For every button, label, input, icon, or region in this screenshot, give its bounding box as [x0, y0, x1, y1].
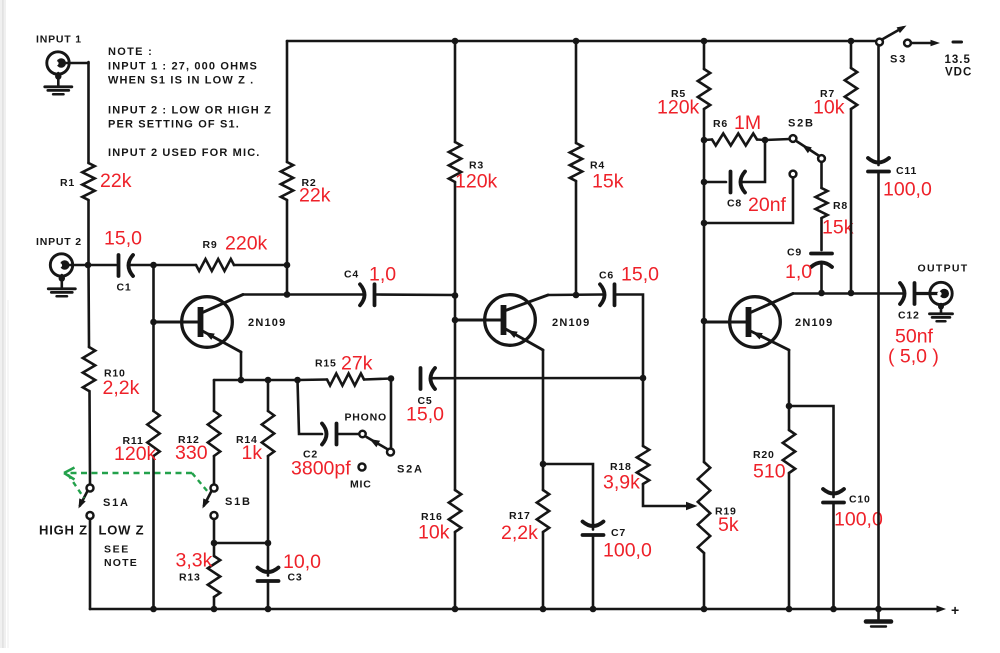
- svg-text:510: 510: [753, 461, 786, 483]
- value R19 5k: [718, 514, 739, 536]
- wire Q1 emitter down: [240, 352, 243, 380]
- capacitor C7: [583, 522, 604, 610]
- transistor Q1 2N109: [154, 295, 244, 353]
- label Q1 2N109: [248, 317, 286, 329]
- svg-text:+: +: [951, 602, 959, 618]
- label R8: [833, 200, 848, 212]
- svg-text:100,0: 100,0: [603, 540, 652, 562]
- value R2 22k: [299, 185, 331, 207]
- svg-text:S2A: S2A: [397, 464, 424, 476]
- resistor R15: [298, 374, 392, 386]
- value R5 120k: [657, 97, 700, 119]
- label R10: [104, 368, 126, 380]
- value C6 15,0: [621, 264, 659, 286]
- value R17 2,2k: [501, 522, 538, 544]
- capacitor C10: [823, 489, 844, 609]
- wire top supply bus: [287, 40, 876, 43]
- svg-text:NOTE :: NOTE :: [108, 46, 153, 58]
- value R18 3,9k: [603, 472, 640, 494]
- svg-text:120k: 120k: [455, 171, 498, 193]
- value R20 510: [753, 461, 786, 483]
- junction S2B return: [701, 220, 708, 227]
- svg-text:C8: C8: [727, 198, 742, 210]
- svg-text:15k: 15k: [822, 217, 854, 239]
- wire bottom ground bus: [90, 606, 946, 613]
- mechanical link S1 dashes: [64, 468, 208, 499]
- label R16: [421, 511, 443, 523]
- junction bus R13: [211, 606, 218, 613]
- wire S2B lower contact return: [704, 178, 793, 224]
- svg-text:R20: R20: [753, 449, 775, 461]
- svg-text:C4: C4: [344, 269, 359, 281]
- label R14: [236, 434, 258, 446]
- junction bus R16: [452, 606, 459, 613]
- svg-text:330: 330: [175, 442, 208, 464]
- label R11: [123, 435, 144, 447]
- wire emitter node to C10: [789, 406, 834, 497]
- resistor R19 potentiometer: [698, 321, 710, 609]
- junction bus C7: [590, 606, 597, 613]
- wire Q2 emitter down: [542, 350, 545, 464]
- resistor R11: [147, 265, 159, 609]
- junction top bus R4: [573, 38, 580, 45]
- label R15: [315, 358, 337, 370]
- wire C12 to output jack: [917, 292, 941, 295]
- label INPUT 2: [36, 236, 82, 248]
- junction top bus R3: [452, 38, 459, 45]
- junction bus R11: [150, 606, 157, 613]
- resistor R14: [262, 380, 274, 543]
- label C11: [896, 165, 917, 177]
- svg-text:22k: 22k: [100, 170, 132, 192]
- jack INPUT 1: [47, 52, 89, 74]
- junction C1/base column: [150, 262, 157, 269]
- svg-text:1,0: 1,0: [785, 261, 812, 283]
- svg-text:15,0: 15,0: [621, 264, 659, 286]
- wire base column down to R16: [454, 320, 457, 490]
- svg-text:15,0: 15,0: [406, 404, 444, 426]
- switch S3: [876, 26, 961, 47]
- capacitor C6: [600, 284, 615, 305]
- junction Q3 base: [701, 318, 708, 325]
- label LOW Z: [99, 523, 145, 538]
- svg-text:3800pf: 3800pf: [291, 458, 351, 480]
- junction C4/R3: [452, 292, 459, 299]
- svg-text:R15: R15: [315, 358, 337, 370]
- label C7: [611, 527, 626, 539]
- value R7 10k: [813, 97, 845, 119]
- junction R6/C8 right: [762, 137, 769, 144]
- junction R13 top: [211, 540, 218, 547]
- junction bus C3: [265, 606, 272, 613]
- wire Q3 collector line: [793, 292, 902, 295]
- label HIGH Z: [39, 523, 88, 538]
- wire Q1 collector to C4: [243, 293, 364, 296]
- label R9: [203, 239, 218, 251]
- svg-text:WHEN S1 IS IN LOW Z .: WHEN S1 IS IN LOW Z .: [108, 75, 254, 87]
- svg-text:3,9k: 3,9k: [603, 472, 640, 494]
- svg-text:27k: 27k: [341, 353, 373, 375]
- resistor R5: [698, 41, 710, 140]
- svg-text:C1: C1: [117, 282, 132, 294]
- svg-text:C10: C10: [849, 494, 871, 506]
- junction emitter rail Q1: [238, 377, 245, 384]
- capacitor C4: [360, 284, 375, 305]
- svg-text:R8: R8: [833, 200, 848, 212]
- svg-text:R9: R9: [203, 239, 218, 251]
- label C8: [727, 198, 742, 210]
- junction emitter rail C2 branch: [294, 377, 301, 384]
- junction Q1 base: [150, 319, 157, 326]
- value C9 1,0: [785, 261, 812, 283]
- wire R5 node down: [703, 140, 706, 321]
- value R15 27k: [341, 353, 373, 375]
- label PHONO: [345, 412, 388, 424]
- junction emitter rail R14: [265, 377, 272, 384]
- label R13: [179, 572, 201, 584]
- label S2B: [788, 118, 815, 130]
- label R19: [715, 506, 737, 518]
- svg-text:( 5,0 ): ( 5,0 ): [888, 346, 939, 368]
- value C5 15,0: [406, 404, 444, 426]
- resistor R17: [537, 464, 549, 609]
- resistor R1: [82, 163, 94, 265]
- wire C2 to phono contact: [339, 433, 360, 436]
- wire C8 left: [704, 181, 726, 184]
- label plus terminal: [951, 602, 959, 618]
- svg-text:HIGH Z: HIGH Z: [39, 523, 88, 538]
- label R6: [713, 118, 728, 130]
- junction bus C11: [875, 606, 882, 613]
- svg-text:20nf: 20nf: [748, 194, 787, 216]
- svg-text:5k: 5k: [718, 514, 739, 536]
- svg-text:PER SETTING OF S1.: PER SETTING OF S1.: [108, 119, 240, 131]
- resistor R8: [816, 162, 828, 250]
- value C8 20nf: [748, 194, 787, 216]
- label OUTPUT: [918, 263, 969, 275]
- label C2: [303, 449, 318, 461]
- svg-text:SEE: SEE: [104, 544, 130, 556]
- switch S2B: [790, 135, 825, 177]
- resistor R10: [83, 265, 95, 485]
- junction R7/collector line: [848, 290, 855, 297]
- wire R3 to Q2 base: [454, 296, 457, 321]
- svg-text:C7: C7: [611, 527, 626, 539]
- junction top bus R7: [848, 38, 855, 45]
- svg-text:INPUT 2 USED FOR MIC.: INPUT 2 USED FOR MIC.: [108, 147, 261, 159]
- svg-text:S1B: S1B: [225, 496, 252, 508]
- value R1 22k: [100, 170, 132, 192]
- capacitor C3: [258, 543, 279, 609]
- wire Q2 collector to C6: [548, 293, 602, 296]
- svg-text:2N109: 2N109: [795, 317, 833, 329]
- label S1A: [103, 497, 130, 509]
- label INPUT 1: [36, 34, 82, 46]
- value R8 15k: [822, 217, 854, 239]
- value R14 1k: [242, 442, 263, 464]
- svg-text:15,0: 15,0: [104, 228, 142, 250]
- label R4: [590, 160, 605, 172]
- svg-text:C11: C11: [896, 165, 917, 177]
- junction R15/C5/S2A: [388, 375, 395, 382]
- value C7 100,0: [603, 540, 652, 562]
- resistor R18: [637, 378, 692, 506]
- junction R4/Q2 collector: [573, 292, 580, 299]
- svg-text:100,0: 100,0: [834, 509, 883, 531]
- label C5: [418, 395, 433, 407]
- value R12 330: [175, 442, 208, 464]
- svg-text:C3: C3: [288, 572, 303, 584]
- junction R2/collector: [284, 291, 291, 298]
- label S2A: [397, 464, 424, 476]
- label 13.5 VDC: [945, 54, 973, 79]
- svg-text:OUTPUT: OUTPUT: [918, 263, 969, 275]
- svg-text:PHONO: PHONO: [345, 412, 388, 424]
- junction top bus R5: [701, 38, 708, 45]
- junction C8 left: [701, 179, 708, 186]
- value R10 2,2k: [103, 377, 140, 399]
- svg-text:S1A: S1A: [103, 497, 130, 509]
- wire S3 contact down to C11: [877, 45, 880, 165]
- svg-text:MIC: MIC: [350, 479, 372, 491]
- svg-text:1M: 1M: [734, 112, 761, 134]
- wire C5 to volume node: [432, 377, 644, 380]
- svg-text:15k: 15k: [592, 171, 624, 193]
- svg-text:2,2k: 2,2k: [103, 377, 140, 399]
- label C3: [288, 572, 303, 584]
- capacitor C8: [731, 172, 746, 193]
- value R11 120k: [114, 443, 157, 465]
- junction C9/collector line: [818, 290, 825, 297]
- junction bus R17: [540, 606, 547, 613]
- ground input1: [45, 73, 72, 94]
- value R13 3,3k: [176, 550, 213, 572]
- label SEE NOTE: [104, 544, 138, 570]
- capacitor C5: [421, 368, 436, 389]
- svg-text:220k: 220k: [225, 233, 268, 255]
- label C6: [599, 270, 614, 282]
- label R17: [509, 510, 531, 522]
- resistor R9: [196, 259, 287, 271]
- svg-text:C12: C12: [898, 310, 920, 322]
- value C12 50nf: [895, 326, 934, 348]
- value R16 10k: [418, 522, 450, 544]
- svg-text:1k: 1k: [242, 442, 263, 464]
- value C10 100,0: [834, 509, 883, 531]
- svg-text:10k: 10k: [813, 97, 845, 119]
- junction C3 top: [265, 540, 272, 547]
- junction Q2 emitter node: [540, 461, 547, 468]
- svg-text:120k: 120k: [657, 97, 700, 119]
- junction bus R19: [701, 606, 708, 613]
- scan edge streak left: [0, 0, 9, 648]
- svg-text:2N109: 2N109: [248, 317, 286, 329]
- wire emitter rail: [214, 379, 299, 382]
- value C2 3800pf: [291, 458, 351, 480]
- junction input2/R1/C1: [85, 262, 92, 269]
- svg-text:R1: R1: [60, 177, 75, 189]
- wire Q3 emitter down: [788, 350, 791, 406]
- svg-text:120k: 120k: [114, 443, 157, 465]
- svg-text:LOW Z: LOW Z: [99, 523, 145, 538]
- label R2: [302, 177, 317, 189]
- label R3: [469, 160, 484, 172]
- note text block: [108, 46, 272, 159]
- label Q3 2N109: [795, 317, 833, 329]
- wiper arrow into R19: [686, 502, 698, 510]
- capacitor C11: [868, 158, 889, 609]
- junction bus C10: [830, 606, 837, 613]
- junction R5/R6: [701, 137, 708, 144]
- svg-text:C9: C9: [787, 247, 802, 259]
- label R7: [820, 88, 835, 100]
- label R1: [60, 177, 75, 189]
- wire input1 to R1: [87, 62, 90, 163]
- value R4 15k: [592, 171, 624, 193]
- label C9: [787, 247, 802, 259]
- svg-text:S2B: S2B: [788, 118, 815, 130]
- value R9 220k: [225, 233, 268, 255]
- svg-text:R6: R6: [713, 118, 728, 130]
- switch S1B: [203, 485, 218, 520]
- label MIC: [350, 479, 372, 491]
- transistor Q2 2N109: [455, 295, 548, 350]
- junction R9/R2: [284, 262, 291, 269]
- ground main bus: [866, 609, 891, 627]
- transistor Q3 2N109: [704, 294, 793, 351]
- svg-text:C6: C6: [599, 270, 614, 282]
- svg-text:R17: R17: [509, 510, 531, 522]
- wire C8 right up to R6: [742, 140, 766, 182]
- capacitor C2: [322, 424, 337, 445]
- value C4 1,0: [369, 264, 396, 286]
- switch S2A: [359, 431, 395, 471]
- svg-text:10,0: 10,0: [283, 551, 321, 573]
- ground output: [930, 304, 953, 322]
- wire R2 to collector node: [286, 265, 289, 295]
- label R12: [178, 434, 200, 446]
- capacitor C12: [900, 283, 915, 304]
- svg-text:1,0: 1,0: [369, 264, 396, 286]
- junction Q3 emitter node: [786, 403, 793, 410]
- label Q2 2N109: [552, 317, 590, 329]
- svg-text:2,2k: 2,2k: [501, 522, 538, 544]
- value C12 (5,0): [888, 346, 939, 368]
- junction C6 column / C5 line: [640, 375, 647, 382]
- label S1B: [225, 496, 252, 508]
- svg-text:VDC: VDC: [945, 67, 972, 79]
- wire S1B to R13 node: [213, 519, 216, 543]
- svg-text:R13: R13: [179, 572, 201, 584]
- wire C2 branch: [298, 380, 323, 434]
- resistor R16: [449, 490, 461, 609]
- label C1: [117, 282, 132, 294]
- svg-text:INPUT 2: INPUT 2: [36, 236, 82, 248]
- label R18: [610, 461, 632, 473]
- junction Q2 base: [452, 317, 459, 324]
- svg-text:INPUT 2 : LOW OR HIGH Z: INPUT 2 : LOW OR HIGH Z: [108, 105, 272, 117]
- value C11 100,0: [883, 179, 932, 201]
- resistor R13: [208, 543, 220, 609]
- wire C4 to R3 column: [377, 293, 456, 296]
- resistor R7: [845, 41, 857, 293]
- wire S2A pole up: [390, 379, 393, 449]
- value R6 1M: [734, 112, 761, 134]
- value C1 15,0: [104, 228, 142, 250]
- svg-text:INPUT 1: INPUT 1: [36, 34, 82, 46]
- svg-text:13.5: 13.5: [945, 54, 971, 66]
- svg-text:22k: 22k: [299, 185, 331, 207]
- resistor R4: [570, 41, 582, 295]
- label R20: [753, 449, 775, 461]
- label C12: [898, 310, 920, 322]
- resistor R6: [704, 134, 765, 146]
- wire emitter node to C7: [543, 464, 593, 530]
- svg-text:50nf: 50nf: [895, 326, 934, 348]
- value R3 120k: [455, 171, 498, 193]
- svg-text:10k: 10k: [418, 522, 450, 544]
- capacitor C1: [119, 255, 134, 276]
- label S3: [890, 54, 907, 66]
- resistor R3: [449, 41, 461, 296]
- jack OUTPUT: [930, 282, 952, 304]
- wire R6 node to S2B contact: [765, 139, 790, 140]
- label R5: [671, 88, 686, 100]
- jack INPUT 2: [50, 254, 88, 276]
- junction bus R20: [786, 606, 793, 613]
- value C3 10,0: [283, 551, 321, 573]
- label C4: [344, 269, 359, 281]
- capacitor C9: [811, 254, 832, 294]
- wire C1 to R9: [130, 264, 196, 267]
- switch S1A: [79, 485, 94, 520]
- svg-text:100,0: 100,0: [883, 179, 932, 201]
- wire S1A to bus: [89, 519, 92, 609]
- resistor R20: [783, 406, 795, 609]
- ground input2: [48, 275, 75, 296]
- wire C6 right then down: [617, 295, 644, 379]
- svg-text:2N109: 2N109: [552, 317, 590, 329]
- svg-text:3,3k: 3,3k: [176, 550, 213, 572]
- resistor R12: [208, 380, 220, 485]
- svg-text:INPUT 1 : 27, 000 OHMS: INPUT 1 : 27, 000 OHMS: [108, 61, 258, 73]
- resistor R2: [281, 41, 293, 265]
- wire R13 node to C3: [214, 542, 268, 545]
- svg-text:S3: S3: [890, 54, 907, 66]
- svg-text:NOTE: NOTE: [104, 557, 138, 569]
- wire input2 node to C1: [88, 264, 116, 267]
- label C10: [849, 494, 871, 506]
